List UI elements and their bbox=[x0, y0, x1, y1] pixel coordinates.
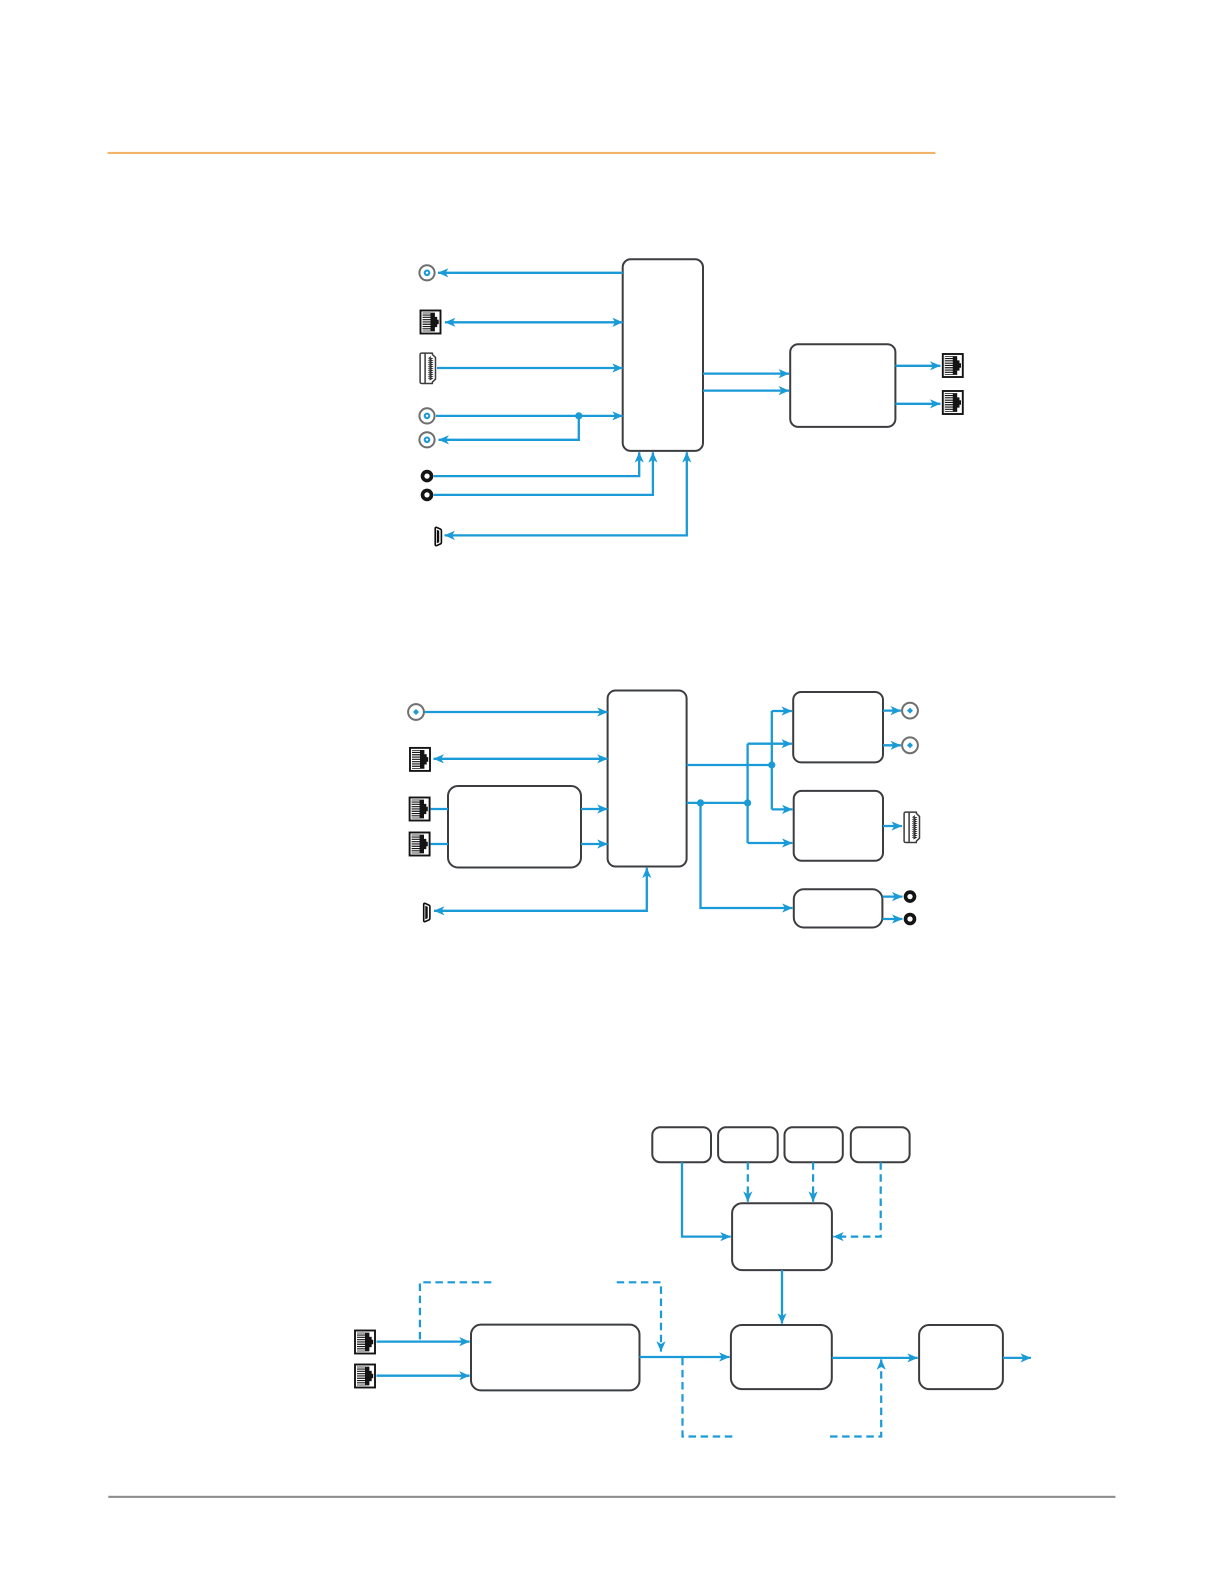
wire J8 to U1 bottom bidirectional bbox=[445, 452, 687, 535]
connector J2 RJ45 left bbox=[421, 311, 441, 334]
wire U1 to J2 bidirectional bbox=[445, 321, 623, 323]
wire T4 to M dashed bbox=[833, 1162, 880, 1236]
wire U2 to J10 bbox=[895, 403, 940, 405]
wire U3 out A horizontal bbox=[687, 764, 772, 766]
node junction J4 branch bbox=[575, 412, 582, 419]
wire riser B vertical bbox=[746, 744, 748, 843]
box M middle (diagram 3) bbox=[732, 1203, 832, 1270]
box L input stage bbox=[471, 1325, 640, 1391]
wire riser A to U5 input 1 bbox=[772, 710, 792, 712]
connector J17 circle-diamond out 2 bbox=[902, 737, 918, 753]
box C center stage bbox=[731, 1325, 832, 1389]
connector J10 RJ45 out 2 bbox=[943, 391, 963, 414]
wire riser B to U5 input 2 bbox=[748, 743, 792, 745]
connector J5 circle-dot out bbox=[419, 432, 434, 447]
connector J14 RJ45 in 2 bbox=[410, 833, 430, 856]
wire J4 to U1 bbox=[436, 415, 623, 417]
wire U1 to U2 link A bbox=[703, 372, 789, 374]
connector J16 circle-diamond out 1 bbox=[902, 703, 918, 719]
wire T1 to M bbox=[682, 1162, 731, 1236]
wire M to C bbox=[781, 1270, 783, 1324]
connector J4 circle-dot in bbox=[419, 408, 434, 423]
box T4 bbox=[851, 1127, 910, 1162]
wire J6 to U1 bottom bbox=[434, 452, 640, 476]
wire J11 to U3 bbox=[425, 711, 608, 713]
bottom gray rule bbox=[108, 1496, 1115, 1498]
orange section rule bbox=[108, 152, 936, 154]
box U6 output middle bbox=[794, 791, 883, 861]
wire U6 to J18 bbox=[883, 825, 902, 827]
box T3 bbox=[785, 1127, 843, 1162]
node junction B1 bbox=[697, 799, 704, 806]
box U4 input processor bbox=[448, 786, 581, 868]
wire J13 to U4 bbox=[431, 808, 448, 810]
box U3 main (diagram 2) bbox=[608, 691, 687, 867]
wire branch to U7 bbox=[701, 803, 793, 908]
wire U3 out B horizontal bbox=[687, 802, 748, 804]
wire R output bbox=[1003, 1357, 1031, 1359]
wire U1 to J1 bbox=[438, 272, 623, 274]
connector J19 speaker terminal 1 bbox=[904, 890, 917, 903]
box U7 output bottom bbox=[794, 889, 883, 927]
connector J22 RJ45 in 2 bbox=[355, 1365, 375, 1388]
connector J13 RJ45 in 1 bbox=[410, 798, 430, 821]
wire riser A to U6 input 1 bbox=[772, 808, 793, 810]
connector J12 RJ45 LAN bbox=[410, 748, 430, 771]
wire dashed loopback left bbox=[420, 1282, 491, 1340]
wire U7 to J19 bbox=[882, 895, 902, 897]
connector J18 terminal block out bbox=[904, 812, 919, 842]
wire dashed retry bottom-right bbox=[830, 1359, 881, 1436]
connector J8 mini-USB bbox=[435, 527, 441, 545]
box U1 main (diagram 1) bbox=[623, 259, 703, 451]
box U2 right (diagram 1) bbox=[790, 344, 895, 427]
wire J7 to U1 bottom bbox=[434, 452, 653, 495]
box R output stage bbox=[919, 1325, 1003, 1389]
box T1 bbox=[652, 1127, 711, 1162]
wire dashed retry bottom-left bbox=[683, 1358, 737, 1437]
wire riser A vertical bbox=[771, 711, 773, 809]
wire L to C bbox=[640, 1356, 730, 1358]
wire U4 to U3 link B bbox=[581, 843, 608, 845]
wire J3 to U1 bbox=[437, 367, 623, 369]
wire T3 to M dashed bbox=[812, 1162, 814, 1202]
connector J6 speaker terminal 1 bbox=[421, 470, 434, 483]
connector J7 speaker terminal 2 bbox=[421, 489, 434, 502]
connector J1 circle-dot out bbox=[419, 265, 434, 280]
wire riser B to U6 input 2 bbox=[748, 842, 793, 844]
wire U2 to J9 bbox=[895, 365, 940, 367]
wire C to R bbox=[832, 1357, 918, 1359]
wire J22 to L bbox=[377, 1375, 470, 1377]
box T2 bbox=[718, 1127, 778, 1162]
wire U5 to J17 bbox=[883, 744, 901, 746]
wire J12 to U3 bidirectional bbox=[434, 758, 608, 760]
wire J21 to L bbox=[377, 1340, 470, 1342]
wire U7 to J20 bbox=[882, 918, 902, 920]
wire J14 to U4 bbox=[431, 843, 448, 845]
connector J20 speaker terminal 2 bbox=[904, 913, 917, 926]
node junction A bbox=[768, 761, 775, 768]
wire U4 to U3 link A bbox=[581, 808, 608, 810]
connector J3 terminal block bbox=[420, 353, 435, 383]
wire U1 to U2 link B bbox=[703, 389, 789, 391]
wire J15 to U3 bottom bidirectional bbox=[434, 868, 647, 911]
wire U5 to J16 bbox=[883, 709, 901, 711]
wire dashed loopback mid bbox=[617, 1282, 661, 1351]
box U5 output top bbox=[793, 692, 883, 762]
connector J15 mini-USB bbox=[424, 903, 430, 921]
connector J9 RJ45 out 1 bbox=[943, 354, 963, 377]
connector J21 RJ45 in 1 bbox=[355, 1331, 375, 1354]
connector J11 circle-diamond in bbox=[408, 704, 424, 720]
wire junction to J5 bbox=[439, 416, 579, 440]
node junction B2 bbox=[744, 799, 751, 806]
wire T2 to M dashed bbox=[747, 1162, 749, 1202]
